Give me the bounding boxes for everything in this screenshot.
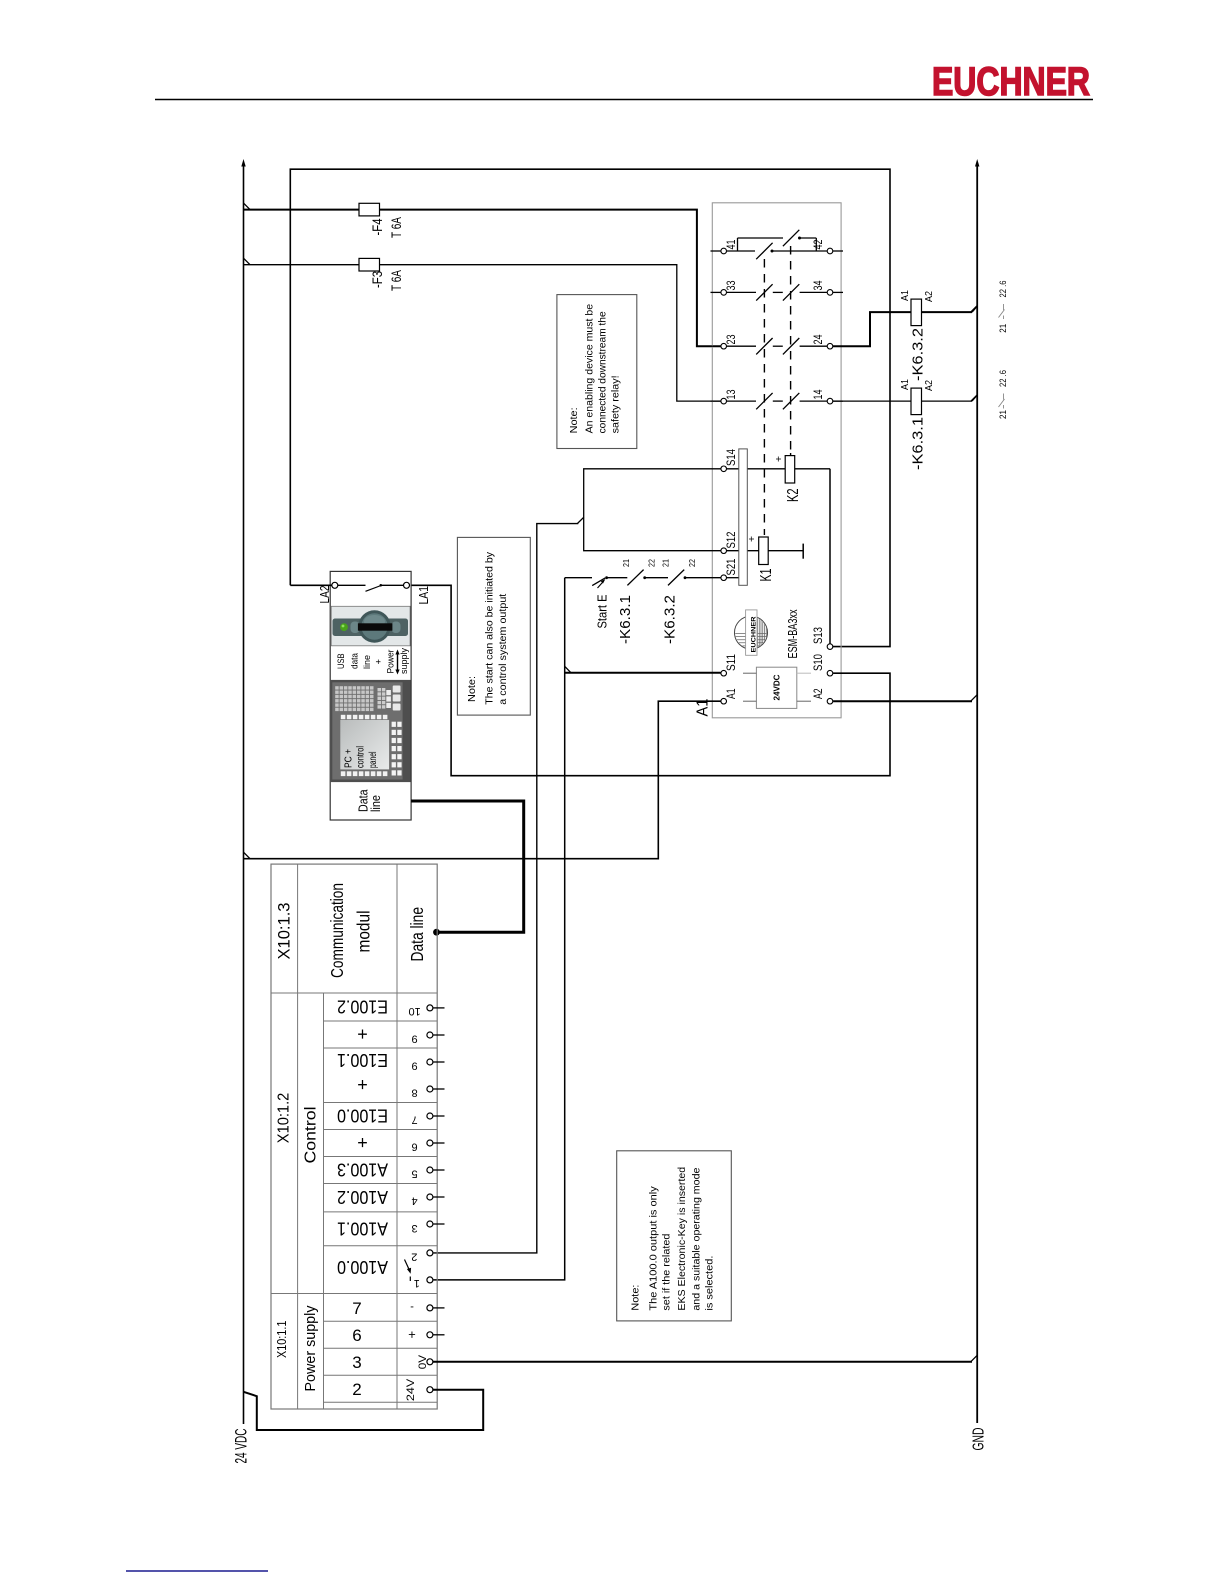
svg-text:-K6.3.2: -K6.3.2: [910, 328, 927, 381]
svg-text:21: 21: [998, 324, 1008, 333]
svg-text:modul: modul: [354, 911, 374, 953]
svg-text:Note:: Note:: [568, 407, 580, 433]
svg-text:GND: GND: [971, 1428, 988, 1451]
svg-text:S13: S13: [811, 627, 825, 644]
svg-text:ESM-BA3xx: ESM-BA3xx: [785, 609, 800, 658]
svg-text:PC +: PC +: [344, 749, 355, 768]
svg-text:3: 3: [412, 1222, 418, 1234]
svg-text:control: control: [356, 746, 367, 768]
svg-text:-K6.3.1: -K6.3.1: [617, 595, 634, 644]
svg-text:A100.1: A100.1: [337, 1218, 388, 1238]
svg-text:T 6A: T 6A: [388, 217, 404, 238]
svg-text:S11: S11: [724, 654, 738, 671]
svg-text:23: 23: [724, 334, 738, 344]
svg-text:21: 21: [998, 410, 1008, 419]
svg-text:line: line: [368, 795, 383, 812]
svg-text:21: 21: [621, 559, 631, 567]
svg-text:22: 22: [647, 559, 657, 567]
svg-text:A100.3: A100.3: [337, 1160, 388, 1180]
svg-text:A1: A1: [900, 290, 911, 301]
svg-text:42: 42: [811, 239, 825, 249]
svg-text:E100.1: E100.1: [337, 1050, 388, 1070]
svg-text:K2: K2: [785, 488, 802, 502]
svg-text:A1: A1: [724, 688, 738, 699]
svg-text:S12: S12: [724, 531, 738, 548]
svg-text:3: 3: [352, 1353, 361, 1372]
svg-text:+: +: [408, 1327, 416, 1342]
svg-text:24 VDC: 24 VDC: [232, 1429, 251, 1464]
svg-text:34: 34: [811, 280, 825, 290]
svg-text:E100.0: E100.0: [337, 1106, 388, 1126]
svg-text:Communication: Communication: [327, 883, 347, 978]
svg-text:T 6A: T 6A: [388, 270, 404, 291]
svg-text:X10:1.2: X10:1.2: [276, 1093, 293, 1144]
svg-text:line: line: [362, 655, 373, 669]
svg-text:21: 21: [661, 559, 671, 567]
svg-text:a control system output: a control system output: [497, 594, 509, 705]
svg-text:33: 33: [724, 280, 738, 290]
svg-text:Note:: Note:: [630, 1285, 642, 1311]
svg-text:A100.0: A100.0: [337, 1257, 388, 1277]
svg-text:+: +: [747, 536, 758, 542]
svg-text:S14: S14: [724, 449, 738, 466]
svg-text:An enabling device must be: An enabling device must be: [584, 304, 596, 434]
svg-text:LA1: LA1: [416, 586, 431, 605]
svg-text:A1: A1: [695, 698, 712, 716]
svg-text:2: 2: [411, 1251, 417, 1263]
svg-text:-K6.3.1: -K6.3.1: [910, 417, 927, 470]
svg-text:-: -: [410, 1301, 414, 1313]
svg-text:Power supply: Power supply: [302, 1305, 319, 1391]
svg-text:41: 41: [724, 239, 738, 249]
svg-text:9: 9: [412, 1033, 418, 1045]
svg-text:A2: A2: [924, 380, 935, 391]
svg-text:A1: A1: [900, 379, 911, 390]
svg-text:EUCHNER: EUCHNER: [932, 60, 1090, 104]
svg-text:and a suitable operating mode: and a suitable operating mode: [691, 1167, 703, 1310]
svg-text:22: 22: [687, 559, 697, 567]
svg-text:EUCHNER: EUCHNER: [750, 616, 757, 652]
svg-text:S10: S10: [811, 654, 825, 671]
svg-text:2: 2: [352, 1380, 361, 1399]
svg-text:set if the related: set if the related: [661, 1233, 673, 1310]
svg-text:22 .6: 22 .6: [998, 370, 1008, 387]
svg-text:-F3: -F3: [369, 271, 385, 288]
svg-text:10: 10: [408, 1005, 420, 1017]
svg-text:-F4: -F4: [369, 218, 385, 235]
svg-text:24VDC: 24VDC: [772, 675, 782, 701]
svg-text:+: +: [374, 659, 385, 665]
svg-text:14: 14: [811, 389, 825, 399]
svg-text:1: 1: [414, 1277, 420, 1289]
svg-text:The A100.0 output is only: The A100.0 output is only: [648, 1186, 660, 1311]
svg-text:X10:1.1: X10:1.1: [274, 1321, 289, 1358]
svg-text:Start E: Start E: [595, 594, 610, 628]
svg-text:+: +: [357, 1075, 368, 1095]
svg-text:7: 7: [352, 1299, 361, 1318]
svg-text:X10:1.3: X10:1.3: [275, 903, 294, 960]
svg-text:Control: Control: [303, 1107, 320, 1164]
svg-text:A2: A2: [811, 688, 825, 699]
svg-text:S21: S21: [724, 558, 738, 575]
svg-text:-K6.3.2: -K6.3.2: [662, 595, 679, 644]
svg-text:24: 24: [811, 334, 825, 344]
svg-text:A2: A2: [924, 291, 935, 302]
svg-text:supply: supply: [399, 648, 410, 674]
svg-text:24V: 24V: [405, 1378, 417, 1401]
svg-text:Data line: Data line: [407, 907, 427, 962]
svg-text:4: 4: [412, 1195, 418, 1207]
svg-text:The start can also be initiate: The start can also be initiated by: [484, 551, 496, 705]
svg-text:A100.2: A100.2: [337, 1187, 388, 1207]
svg-text:is selected.: is selected.: [704, 1256, 716, 1311]
svg-text:Note:: Note:: [466, 676, 478, 702]
svg-text:22 .6: 22 .6: [998, 281, 1008, 298]
svg-text:6: 6: [352, 1326, 361, 1345]
svg-text:+: +: [774, 456, 785, 462]
svg-text:safety relay!: safety relay!: [610, 375, 622, 433]
svg-text:E100.2: E100.2: [337, 997, 388, 1017]
svg-text:USB: USB: [336, 654, 347, 670]
svg-text:+: +: [357, 1133, 368, 1153]
svg-text:7: 7: [412, 1114, 418, 1126]
svg-text:Power: Power: [386, 650, 397, 674]
svg-text:9: 9: [412, 1060, 418, 1072]
svg-text:13: 13: [724, 389, 738, 399]
svg-text:5: 5: [412, 1168, 418, 1180]
svg-text:+: +: [357, 1024, 368, 1044]
svg-text:6: 6: [412, 1141, 418, 1153]
svg-text:panel: panel: [368, 752, 379, 769]
svg-text:8: 8: [412, 1087, 418, 1099]
svg-text:EKS Electronic-Key is inserted: EKS Electronic-Key is inserted: [676, 1167, 688, 1311]
svg-text:LA2: LA2: [317, 586, 332, 604]
svg-text:data: data: [350, 652, 361, 669]
svg-text:connected downstream the: connected downstream the: [597, 311, 609, 433]
svg-text:K1: K1: [758, 568, 775, 581]
